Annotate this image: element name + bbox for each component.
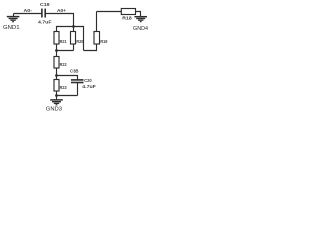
- wire net R19 top to R18: [97, 11, 122, 13]
- resistor R21: [54, 32, 59, 45]
- svg-text:4.7uF: 4.7uF: [82, 84, 96, 90]
- svg-text:R19: R19: [100, 39, 107, 45]
- svg-text:R23: R23: [60, 85, 67, 91]
- svg-text:R21: R21: [60, 39, 67, 45]
- svg-text:GND4: GND4: [133, 26, 148, 32]
- wire R23 top: [56, 76, 58, 80]
- wire net A0+ from C19 to bus drop: [45, 14, 73, 27]
- svg-text:R20: R20: [76, 39, 83, 45]
- resistor R22: [54, 57, 59, 69]
- ground GND1: [7, 14, 20, 22]
- wire R18 to GND4: [136, 12, 141, 17]
- junction dot bottom node: [55, 94, 58, 97]
- svg-text:R22: R22: [60, 62, 67, 68]
- wire distribution bus: [57, 27, 84, 51]
- wire mid node to C20: [57, 76, 78, 80]
- svg-text:A0-: A0-: [24, 8, 33, 14]
- wire R20 top: [73, 27, 75, 32]
- wire bottom node to C20 bottom: [57, 95, 78, 97]
- resistor R19: [94, 32, 100, 45]
- wire R23 bottom: [56, 91, 58, 96]
- wire bottom bus R21-R20: [57, 50, 74, 52]
- resistor R18: [121, 9, 135, 15]
- wire R21 bottom: [56, 44, 58, 51]
- wire R20 bottom: [73, 44, 75, 51]
- resistor R23: [54, 80, 59, 92]
- svg-text:GND3: GND3: [46, 106, 62, 112]
- svg-text:C19: C19: [40, 2, 50, 8]
- svg-text:GND1: GND1: [3, 25, 20, 31]
- ground GND3: [50, 96, 63, 105]
- wire R19 top riser to R18 net: [96, 12, 98, 32]
- ground GND4: [134, 17, 147, 22]
- resistor R20: [71, 32, 76, 45]
- svg-text:C20: C20: [84, 78, 92, 84]
- junction dot mid node: [55, 74, 58, 77]
- capacitor C19: [42, 9, 45, 18]
- svg-text:C3B: C3B: [70, 68, 79, 74]
- junction dot R21 bottom node: [55, 49, 58, 52]
- wire R19 bottom to bus drop: [84, 44, 97, 51]
- svg-text:A0+: A0+: [57, 8, 66, 14]
- wire C20 bottom: [77, 83, 79, 96]
- junction dot at A0+ bus: [72, 25, 75, 28]
- wire R22 top: [56, 51, 58, 57]
- wire net A0- from GND1 to C19: [14, 13, 42, 15]
- wire R22 bottom to mid node: [56, 68, 58, 76]
- svg-text:R18: R18: [122, 15, 132, 21]
- svg-text:4.7uF: 4.7uF: [38, 20, 52, 26]
- capacitor C20: [71, 80, 84, 83]
